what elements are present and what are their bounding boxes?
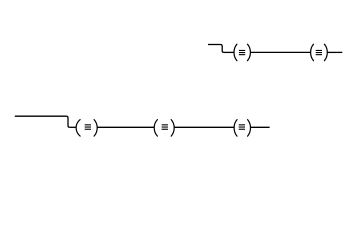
wire W2: stub into symbol X1	[224, 51, 234, 53]
symbol X5 left arc "("	[234, 120, 237, 137]
wire W1: upper feeder segment of top run	[208, 44, 221, 46]
symbol X1 right arc ")"	[248, 44, 251, 61]
symbol X3 right arc ")"	[94, 120, 97, 137]
symbol X1 left arc "("	[234, 44, 237, 61]
symbol X4 right arc ")"	[171, 120, 174, 137]
wire W5: upper feeder segment of bottom run	[15, 115, 67, 117]
wire W5 step: rounded jog down to lower level	[66, 116, 69, 127]
symbol X2 bars "≡"	[316, 50, 322, 55]
symbol X5 right arc ")"	[248, 120, 251, 137]
symbol X5 bars "≡"	[239, 124, 245, 130]
symbol X1 bars "≡"	[239, 50, 245, 55]
wire W7: between X3 and X4	[97, 126, 154, 128]
symbol X2 right arc ")"	[324, 44, 327, 61]
wire W4: right tail of top run	[327, 51, 342, 53]
wire W1 step: rounded jog down to lower level	[221, 45, 224, 53]
symbol X3 left arc "("	[76, 120, 80, 137]
symbol X4 bars "≡"	[162, 124, 168, 130]
symbol X2 left arc "("	[311, 44, 314, 61]
symbol X4 left arc "("	[154, 120, 157, 137]
wire W8: between X4 and X5	[174, 126, 234, 128]
wire W6: stub into symbol X3	[70, 126, 77, 128]
wire W9: right tail of bottom run	[251, 126, 270, 128]
wire W3: between X1 and X2	[250, 51, 310, 53]
symbol X3 bars "≡"	[85, 124, 91, 130]
